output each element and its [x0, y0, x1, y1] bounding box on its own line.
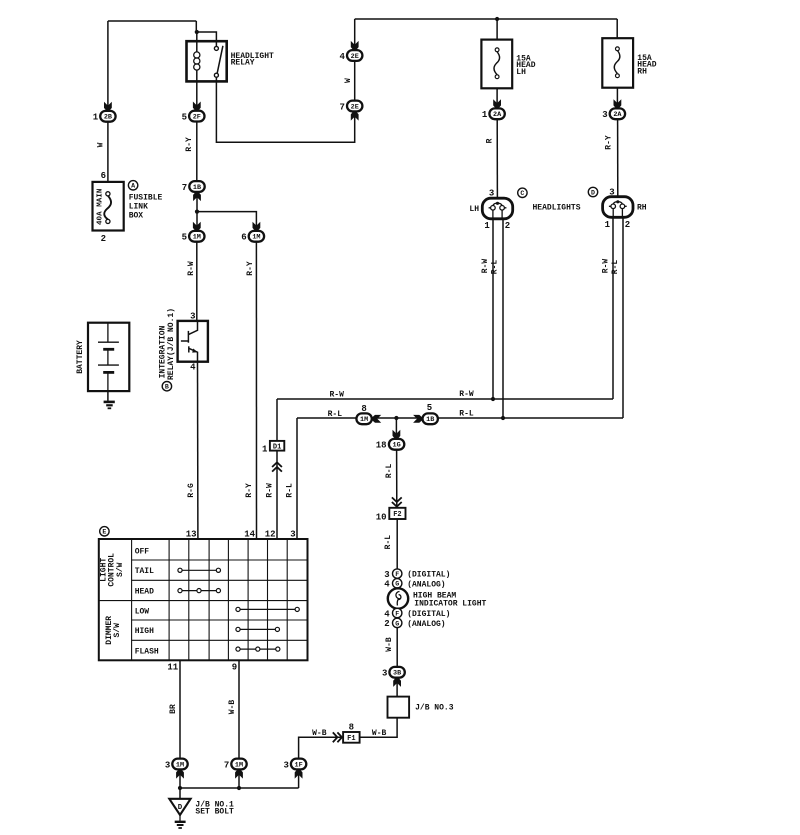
svg-text:HEAD: HEAD	[135, 588, 154, 597]
svg-text:1: 1	[484, 221, 490, 231]
circled letter E	[100, 527, 109, 536]
svg-text:E: E	[102, 529, 106, 536]
wire R-W horizontal bus	[277, 398, 613, 400]
svg-text:R-Y: R-Y	[185, 137, 194, 152]
svg-text:FLASH: FLASH	[135, 647, 159, 656]
svg-text:RELAY: RELAY	[231, 59, 255, 68]
wire drop to fuse HEAD RH	[616, 19, 618, 38]
chevron arrow down into F2	[392, 497, 402, 506]
wire R fuse LH to connector 2A	[496, 88, 498, 108]
fusible link element	[104, 196, 111, 220]
connector 1 2A	[489, 108, 504, 119]
svg-text:F: F	[395, 571, 399, 578]
wire R-W headlight LH pin 1 down	[492, 219, 494, 400]
svg-text:18: 18	[376, 441, 387, 451]
wire W-B to connector 3B	[396, 627, 398, 667]
svg-text:S/W: S/W	[116, 562, 125, 577]
junction R-L bus at LH pin 2	[501, 416, 505, 420]
arrow into 1 2A	[493, 99, 501, 108]
svg-text:1: 1	[605, 220, 611, 230]
svg-text:2A: 2A	[493, 111, 502, 119]
arrow into 18 1G	[393, 430, 401, 439]
svg-text:R-L: R-L	[491, 260, 500, 275]
svg-text:5: 5	[182, 112, 187, 122]
svg-text:1: 1	[93, 113, 99, 123]
svg-text:R-G: R-G	[187, 483, 196, 498]
svg-text:BR: BR	[169, 704, 178, 714]
svg-text:1F: 1F	[295, 761, 303, 769]
headlight RH lamp	[603, 197, 633, 218]
switch contacts HEAD	[182, 590, 216, 592]
wire R-L 1G to splice F2	[396, 449, 398, 507]
svg-text:4: 4	[339, 52, 345, 62]
switch contacts FLASH	[240, 648, 276, 650]
svg-text:B: B	[165, 384, 169, 391]
wire R-L down to switch pin 3	[296, 418, 298, 539]
svg-text:W: W	[96, 142, 105, 147]
svg-text:R-L: R-L	[459, 410, 474, 419]
arrow into 7 1M	[235, 770, 243, 779]
splice F1	[343, 732, 360, 743]
svg-text:R-W: R-W	[187, 261, 196, 276]
wire junction down to 5 1M	[196, 212, 198, 231]
wire 3 1M to ground point	[179, 769, 181, 798]
connector G analog lower	[393, 618, 402, 627]
svg-text:1B: 1B	[193, 184, 201, 192]
svg-text:HIGH: HIGH	[135, 627, 154, 636]
svg-text:W-B: W-B	[312, 729, 327, 738]
connector 3 2A	[610, 108, 625, 119]
svg-text:2: 2	[384, 619, 389, 629]
relay coil	[194, 52, 200, 70]
svg-text:2: 2	[625, 220, 630, 230]
svg-text:6: 6	[101, 171, 106, 181]
circled letter D	[588, 187, 597, 196]
wire drop to fuse HEAD LH	[496, 19, 498, 40]
wire W-B F1 to connector 1F	[299, 737, 344, 758]
junction R-W bus at LH pin 1	[491, 397, 495, 401]
svg-text:3: 3	[489, 189, 494, 199]
svg-text:OFF: OFF	[135, 547, 150, 556]
svg-text:1: 1	[482, 110, 488, 120]
wire R-W headlight RH pin 1 down	[612, 219, 614, 400]
svg-text:1G: 1G	[393, 442, 401, 450]
connector 3 1F	[291, 759, 306, 770]
arrow into 3 2A	[614, 99, 622, 108]
relay switch contacts	[214, 46, 218, 77]
svg-text:12: 12	[265, 530, 276, 540]
svg-text:LINK: LINK	[129, 202, 148, 211]
splice D1	[270, 441, 284, 451]
svg-text:2E: 2E	[351, 103, 359, 111]
wire R-L horizontal bus	[297, 417, 623, 419]
light control and dimmer switch box	[99, 539, 308, 660]
arrow into 3 3B	[393, 678, 401, 687]
wire W-B J/B No.3 to splice F1	[360, 718, 398, 738]
arrow into 6 1M	[253, 222, 261, 231]
svg-text:3: 3	[290, 530, 295, 540]
svg-text:1M: 1M	[176, 761, 184, 769]
switch contacts LOW	[240, 608, 295, 610]
fuse 15A HEAD LH	[481, 40, 512, 89]
arrow into 2F	[193, 102, 201, 111]
svg-text:R-W: R-W	[481, 259, 490, 274]
junction ground bus middle	[237, 786, 241, 790]
svg-text:3: 3	[382, 669, 387, 679]
connector 3 1M ground	[172, 759, 187, 770]
svg-text:W-B: W-B	[372, 729, 387, 738]
arrow into 4 2E	[351, 41, 359, 50]
svg-text:(DIGITAL): (DIGITAL)	[407, 571, 450, 580]
svg-text:S/W: S/W	[113, 623, 122, 638]
junction ground bus left	[178, 786, 182, 790]
svg-text:TAIL: TAIL	[135, 567, 154, 576]
svg-text:2F: 2F	[193, 114, 201, 122]
svg-text:(ANALOG): (ANALOG)	[407, 580, 445, 589]
svg-text:1B: 1B	[426, 416, 434, 424]
wire battery negative to ground	[107, 391, 109, 401]
relay: headlight relay box	[187, 41, 227, 81]
wire indicator to connector F	[396, 608, 398, 619]
wire 3B to J/B No.3	[396, 678, 398, 697]
svg-text:9: 9	[232, 663, 237, 673]
connector 18 1G	[389, 439, 404, 450]
svg-text:10: 10	[376, 512, 387, 522]
junction block J/B NO.3	[388, 697, 410, 718]
high beam indicator light bulb	[388, 588, 408, 608]
svg-text:RH: RH	[637, 204, 647, 213]
svg-text:BOX: BOX	[129, 211, 144, 220]
svg-text:5: 5	[182, 233, 187, 243]
wire R-Y to headlight RH pin 3	[617, 119, 619, 203]
switch grid lines	[99, 539, 308, 660]
connector 5 2F	[189, 111, 204, 122]
svg-text:C: C	[520, 190, 524, 197]
svg-text:4: 4	[384, 609, 390, 619]
svg-text:F1: F1	[347, 735, 355, 743]
svg-text:13: 13	[186, 530, 197, 540]
fuse 15A HEAD RH	[602, 38, 633, 87]
svg-text:3: 3	[602, 110, 607, 120]
svg-text:11: 11	[167, 663, 178, 673]
wire junction down to connector 1G	[395, 418, 397, 439]
wire R-G integration relay pin 4 to switch pin 13	[197, 362, 199, 539]
arrow into 8 1M	[372, 415, 381, 423]
svg-text:RH: RH	[637, 67, 647, 76]
svg-text:R-L: R-L	[328, 410, 343, 419]
svg-text:1M: 1M	[252, 234, 260, 242]
circled letter A	[128, 181, 137, 190]
arrow into 3 1F	[295, 770, 303, 779]
connector 3 3B	[389, 667, 404, 678]
wire R-W down to splice D1	[276, 399, 278, 441]
svg-text:R-W: R-W	[329, 391, 344, 400]
wire top feed horizontal to fuses	[355, 18, 618, 20]
wire 7 1M to ground bus	[238, 769, 240, 788]
svg-text:W-B: W-B	[385, 637, 394, 652]
wire F to high beam indicator	[396, 578, 398, 589]
switch contacts TAIL	[182, 569, 216, 571]
connector 7 1B	[189, 181, 204, 192]
wire R-Y 6 1M to switch pin 14	[255, 242, 257, 539]
junction top bus at fuse LH	[495, 17, 499, 21]
arrow into 2B	[104, 102, 112, 111]
chevron arrow up into D1	[272, 462, 282, 471]
svg-text:3: 3	[190, 311, 195, 321]
svg-text:R-W: R-W	[459, 390, 474, 399]
connector G analog upper	[393, 579, 402, 588]
wire branch to relay switch contact	[197, 32, 217, 48]
svg-text:4: 4	[384, 580, 390, 590]
connector F digital upper	[393, 569, 402, 578]
svg-text:2: 2	[101, 234, 106, 244]
svg-text:7: 7	[339, 102, 344, 112]
connector 7 1M ground	[231, 759, 246, 770]
svg-text:INDICATOR LIGHT: INDICATOR LIGHT	[414, 600, 486, 609]
svg-text:R-Y: R-Y	[246, 261, 255, 276]
svg-text:R-L: R-L	[285, 483, 294, 498]
fusible link box 40A MAIN	[93, 182, 124, 231]
wire R-L headlight RH pin 2 down	[622, 219, 624, 419]
wire 4 2E up to top bus	[354, 19, 356, 50]
svg-text:14: 14	[244, 530, 255, 540]
svg-text:1M: 1M	[360, 416, 368, 424]
arrow into 7 1B	[193, 192, 201, 201]
svg-text:BATTERY: BATTERY	[76, 340, 85, 374]
svg-text:HEADLIGHTS: HEADLIGHTS	[533, 204, 581, 213]
wire R-W 5 1M to integration relay pin 3	[196, 242, 198, 321]
connector F digital lower	[393, 608, 402, 617]
svg-text:R: R	[485, 138, 494, 143]
wire R-L F2 down to connector F	[396, 519, 398, 569]
svg-text:(DIGITAL): (DIGITAL)	[407, 610, 450, 619]
junction below 1B	[195, 210, 199, 214]
transistor inside integration relay	[181, 321, 198, 362]
headlight LH lamp	[482, 198, 512, 219]
svg-text:1: 1	[262, 444, 268, 454]
svg-text:F2: F2	[393, 511, 401, 519]
wire W battery column down to fusible link	[107, 21, 109, 182]
relay switch blade	[217, 46, 223, 73]
svg-text:5: 5	[427, 403, 432, 413]
svg-text:R-W: R-W	[602, 259, 611, 274]
svg-text:A: A	[131, 183, 135, 190]
wire W-B switch pin 9 down to 7 1M	[238, 660, 240, 758]
arrow into 5 1B	[413, 415, 422, 423]
connector 8 1M	[356, 413, 371, 424]
svg-text:R-L: R-L	[384, 535, 393, 550]
wire relay coil out down to connector 1B	[196, 70, 198, 181]
arrow into 3 1M	[176, 770, 184, 779]
svg-text:3: 3	[283, 760, 288, 770]
svg-text:R-L: R-L	[611, 260, 620, 275]
svg-text:4: 4	[190, 363, 196, 373]
wire W between 2E connectors	[354, 61, 356, 100]
chevron arrow right into F1	[333, 732, 342, 742]
junction R-L bus to 1G	[394, 416, 398, 420]
battery cells	[98, 323, 119, 391]
svg-text:J/B NO.3: J/B NO.3	[415, 704, 454, 713]
ground below battery	[104, 402, 115, 408]
integration relay box	[178, 321, 208, 362]
splice F2	[389, 508, 405, 519]
wire into relay coil	[196, 32, 198, 52]
svg-text:G: G	[395, 620, 399, 627]
wire ground bus	[180, 787, 299, 789]
arrow into 7 2E	[351, 112, 359, 121]
svg-text:F: F	[395, 610, 399, 617]
connector 4 2E	[347, 50, 362, 61]
svg-text:D1: D1	[273, 443, 281, 451]
svg-text:6: 6	[241, 233, 246, 243]
svg-text:2B: 2B	[104, 114, 112, 122]
wire R to headlight LH pin 3	[496, 119, 498, 204]
svg-text:2: 2	[505, 221, 510, 231]
wire battery feed top horizontal	[108, 20, 196, 22]
svg-text:LOW: LOW	[135, 607, 150, 616]
svg-text:LH: LH	[469, 205, 479, 214]
svg-text:SET BOLT: SET BOLT	[195, 808, 234, 817]
wire R-W splice D1 to switch pin 12	[276, 450, 278, 539]
svg-text:7: 7	[224, 760, 229, 770]
svg-text:1M: 1M	[193, 234, 201, 242]
svg-text:D: D	[178, 804, 183, 812]
svg-text:FUSIBLE: FUSIBLE	[129, 193, 163, 202]
svg-text:3B: 3B	[393, 670, 401, 678]
svg-text:W: W	[344, 78, 353, 83]
connector 6 1M	[249, 231, 264, 242]
connector 7 2E	[347, 101, 362, 112]
svg-text:40A MAIN: 40A MAIN	[96, 188, 104, 225]
svg-text:RELAY(J/B NO.1): RELAY(J/B NO.1)	[167, 308, 176, 380]
svg-text:2A: 2A	[613, 111, 622, 119]
svg-text:G: G	[395, 581, 399, 588]
wire BR switch pin 11 down to 3 1M	[179, 660, 181, 758]
svg-text:D: D	[591, 189, 595, 196]
wire relay switch out to connector 7 2E	[216, 75, 354, 142]
svg-text:R-L: R-L	[385, 464, 394, 479]
switch contacts HIGH	[240, 628, 275, 630]
svg-text:LH: LH	[516, 68, 526, 77]
svg-text:8: 8	[361, 404, 366, 414]
svg-text:3: 3	[165, 760, 170, 770]
wire R-L headlight LH pin 2 down	[502, 219, 504, 419]
svg-text:R-Y: R-Y	[245, 483, 254, 498]
wire junction branch right to 6 1M	[197, 212, 256, 231]
connector 5 1B	[423, 413, 438, 424]
wire R-Y fuse RH to connector 2A	[616, 88, 618, 109]
circled letter C	[518, 188, 527, 197]
connector 5 1M	[189, 231, 204, 242]
wire 1F to ground bus	[298, 769, 300, 788]
ground J/B NO.1 SET BOLT	[169, 799, 190, 815]
svg-text:3: 3	[609, 188, 614, 198]
svg-text:7: 7	[182, 183, 187, 193]
connector 1 2B	[100, 111, 115, 122]
circled letter B	[162, 382, 171, 391]
svg-text:R-Y: R-Y	[605, 135, 614, 150]
svg-text:W-B: W-B	[228, 700, 237, 715]
svg-text:1M: 1M	[235, 761, 243, 769]
junction relay feed	[195, 30, 199, 34]
wire 1B to junction	[196, 192, 198, 212]
svg-text:(ANALOG): (ANALOG)	[407, 620, 445, 629]
svg-text:3: 3	[384, 570, 389, 580]
arrow into 5 1M	[193, 222, 201, 231]
battery box	[88, 323, 129, 391]
svg-text:2E: 2E	[351, 53, 359, 61]
wire relay feed drop	[195, 21, 197, 32]
svg-text:R-W: R-W	[265, 483, 274, 498]
svg-text:8: 8	[349, 722, 354, 732]
